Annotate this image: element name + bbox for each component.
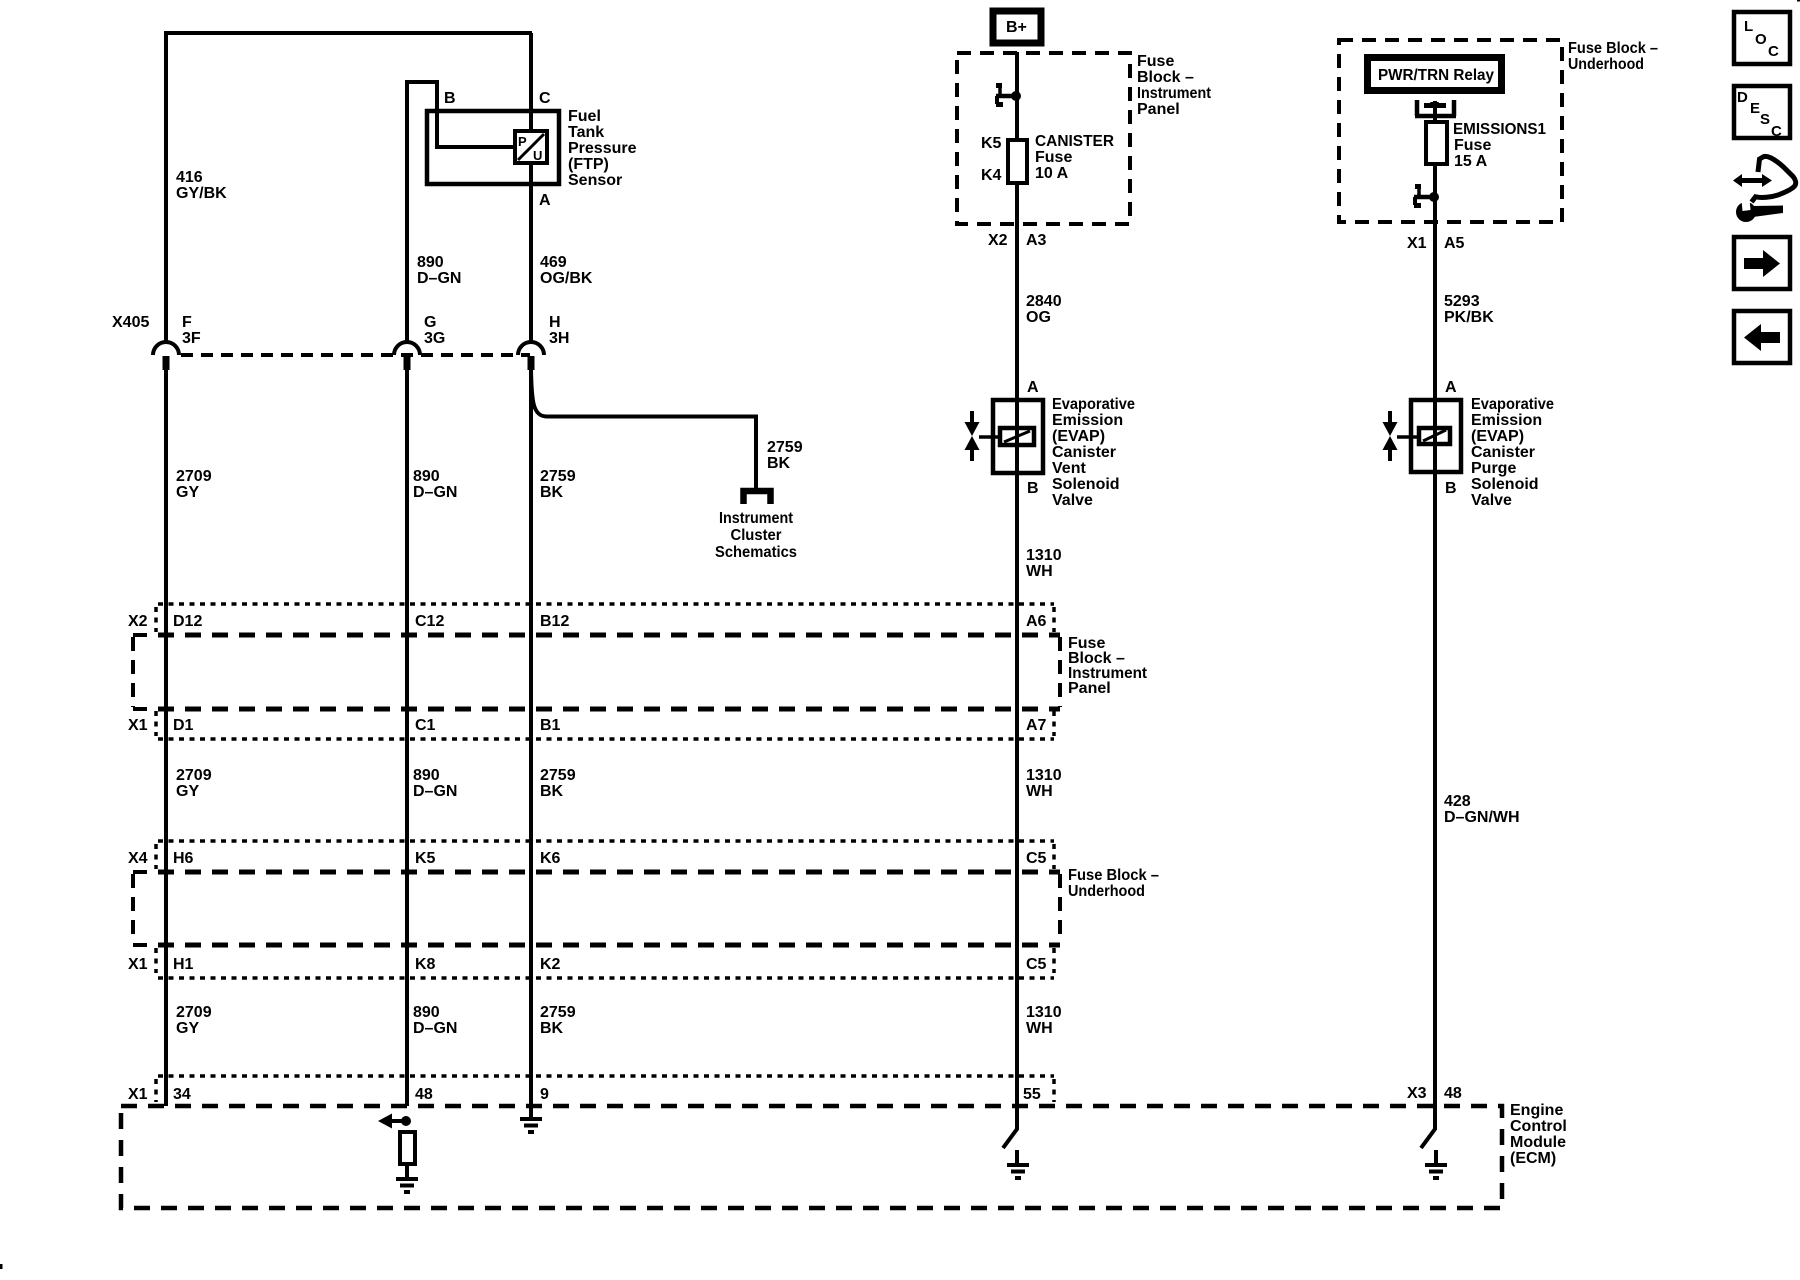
svg-text:A6: A6 <box>1026 613 1047 630</box>
svg-text:L: L <box>1744 18 1753 35</box>
wire 890 D-GN lower vertical <box>405 368 409 1106</box>
UH band row1 left tick <box>154 844 158 869</box>
svg-text:B: B <box>1027 480 1039 497</box>
svg-text:D1: D1 <box>173 717 194 734</box>
wire 416 GY/BK top horizontal <box>164 31 532 35</box>
svg-text:Block –: Block – <box>1137 69 1194 86</box>
fuse EMISSIONS1 element <box>1426 122 1447 164</box>
svg-text:X1: X1 <box>128 956 148 973</box>
svg-text:OG: OG <box>1026 309 1051 326</box>
off-page connector to instrument cluster <box>744 491 771 504</box>
svg-text:Solenoid: Solenoid <box>1052 476 1120 493</box>
svg-text:BK: BK <box>540 484 564 501</box>
wire through vent valve <box>1015 400 1019 473</box>
svg-text:2709: 2709 <box>176 1004 212 1021</box>
svg-text:Solenoid: Solenoid <box>1471 476 1539 493</box>
svg-text:WH: WH <box>1026 563 1053 580</box>
UH band row1 right tick <box>1052 844 1056 869</box>
IP band row1 dotted line <box>158 602 1054 606</box>
svg-text:Cluster: Cluster <box>731 527 782 544</box>
fuel tank pressure FTP sensor box <box>427 111 559 184</box>
wire pin 9 to ground <box>529 1106 533 1117</box>
svg-text:B: B <box>444 90 456 107</box>
svg-text:EMISSIONS1: EMISSIONS1 <box>1453 121 1546 138</box>
bus bar tap symbol right <box>1414 184 1439 208</box>
svg-text:OG/BK: OG/BK <box>540 270 593 287</box>
wire B+ to fuse <box>1015 52 1019 140</box>
svg-text:9: 9 <box>540 1086 549 1103</box>
svg-text:GY: GY <box>176 1020 199 1037</box>
vent valve symbol <box>965 411 1001 461</box>
connector X405 dashed line <box>181 353 530 357</box>
fuse block instrument panel dashed box <box>957 53 1130 224</box>
svg-text:Emission: Emission <box>1052 412 1123 429</box>
wire resistor to ground <box>405 1164 409 1178</box>
svg-text:Valve: Valve <box>1471 492 1512 509</box>
svg-text:H: H <box>549 314 561 331</box>
svg-text:15 A: 15 A <box>1454 153 1488 170</box>
svg-text:A3: A3 <box>1026 232 1047 249</box>
vent solenoid coil <box>1000 428 1034 445</box>
svg-text:D–GN: D–GN <box>417 270 461 287</box>
svg-text:PWR/TRN Relay: PWR/TRN Relay <box>1378 67 1494 84</box>
svg-text:890: 890 <box>413 767 440 784</box>
svg-text:34: 34 <box>173 1086 191 1103</box>
svg-text:GY: GY <box>176 783 199 800</box>
svg-text:428: 428 <box>1444 793 1471 810</box>
svg-text:D–GN: D–GN <box>413 783 457 800</box>
svg-text:D–GN: D–GN <box>413 484 457 501</box>
svg-text:Schematics: Schematics <box>715 544 797 561</box>
purge solenoid coil <box>1419 428 1450 444</box>
svg-text:469: 469 <box>540 254 567 271</box>
svg-text:(FTP): (FTP) <box>568 156 609 173</box>
svg-text:Instrument: Instrument <box>1137 85 1212 102</box>
speck top-right <box>1797 0 1800 2</box>
svg-text:Fuse: Fuse <box>1454 137 1491 154</box>
B+ battery feed symbol <box>993 11 1041 43</box>
svg-text:A5: A5 <box>1444 235 1465 252</box>
svg-text:BK: BK <box>540 1020 564 1037</box>
connector X405 arc F <box>153 342 179 355</box>
svg-text:(ECM): (ECM) <box>1510 1150 1556 1167</box>
svg-text:(EVAP): (EVAP) <box>1471 428 1524 445</box>
wire 1310 WH <box>1015 473 1019 1106</box>
speck bottom-left <box>0 1264 3 1269</box>
svg-text:S: S <box>1760 111 1770 128</box>
svg-text:X2: X2 <box>128 613 148 630</box>
DESC navigation box <box>1734 86 1790 140</box>
svg-text:D–GN: D–GN <box>413 1020 457 1037</box>
svg-text:C: C <box>1768 43 1779 60</box>
LOC navigation box <box>1734 12 1790 64</box>
service info icon <box>1733 156 1796 222</box>
svg-text:Fuse: Fuse <box>1035 149 1072 166</box>
svg-text:Canister: Canister <box>1052 444 1116 461</box>
fuse block underhood dashed box top <box>1339 40 1562 222</box>
svg-text:2709: 2709 <box>176 767 212 784</box>
svg-text:P: P <box>518 134 527 149</box>
svg-text:Canister: Canister <box>1471 444 1535 461</box>
PWR/TRN relay box <box>1368 58 1502 91</box>
wire sensor pin B jog <box>407 82 513 147</box>
svg-text:Instrument: Instrument <box>719 510 794 527</box>
wire 416 GY/BK left vertical <box>164 31 168 344</box>
back arrow box <box>1734 311 1790 363</box>
svg-text:BK: BK <box>767 455 791 472</box>
UH band row2 dotted line <box>158 976 1054 980</box>
UH band row2 left tick <box>154 948 158 973</box>
connector X405 arc G <box>394 342 420 355</box>
svg-text:K5: K5 <box>415 850 436 867</box>
ground at pin 9 <box>520 1119 542 1132</box>
ground stem at pin 55 <box>1015 1150 1019 1164</box>
EVAP canister purge solenoid valve box <box>1411 400 1461 472</box>
svg-text:C1: C1 <box>415 717 436 734</box>
svg-text:CANISTER: CANISTER <box>1035 133 1114 150</box>
svg-text:5293: 5293 <box>1444 293 1480 310</box>
fuse block IP dashed box mid <box>158 633 1060 638</box>
purge valve symbol <box>1383 411 1420 461</box>
relay output bracket <box>1415 100 1456 116</box>
svg-text:Emission: Emission <box>1471 412 1542 429</box>
svg-text:Vent: Vent <box>1052 460 1086 477</box>
svg-text:Evaporative: Evaporative <box>1471 396 1554 413</box>
svg-text:Control: Control <box>1510 1118 1567 1135</box>
svg-text:X405: X405 <box>112 314 149 331</box>
svg-text:B1: B1 <box>540 717 561 734</box>
IP band row1 right tick <box>1052 607 1056 632</box>
svg-text:G: G <box>424 314 436 331</box>
svg-text:C: C <box>539 90 551 107</box>
forward arrow box <box>1734 237 1790 289</box>
wire 2840 OG <box>1015 183 1019 400</box>
UH band row2 right tick <box>1052 948 1056 973</box>
svg-text:Fuse Block –: Fuse Block – <box>1068 867 1159 884</box>
svg-text:A: A <box>539 192 551 209</box>
svg-text:Module: Module <box>1510 1134 1566 1151</box>
svg-text:416: 416 <box>176 169 203 186</box>
ECM signal arrow at pin 48 <box>378 1114 411 1129</box>
svg-text:X3: X3 <box>1407 1085 1427 1102</box>
svg-text:K4: K4 <box>981 167 1002 184</box>
svg-text:X1: X1 <box>1407 235 1427 252</box>
svg-text:K8: K8 <box>415 956 436 973</box>
svg-text:A7: A7 <box>1026 717 1047 734</box>
svg-text:48: 48 <box>415 1086 433 1103</box>
svg-text:(EVAP): (EVAP) <box>1052 428 1105 445</box>
svg-text:2759: 2759 <box>540 1004 576 1021</box>
connector X405 pin F <box>163 356 170 370</box>
svg-text:2709: 2709 <box>176 468 212 485</box>
svg-text:3F: 3F <box>182 330 201 347</box>
svg-text:Purge: Purge <box>1471 460 1516 477</box>
EVAP canister vent solenoid valve box <box>993 400 1043 473</box>
svg-text:F: F <box>182 314 192 331</box>
wire through purge valve <box>1433 400 1437 472</box>
wire 890 D-GN left vertical <box>405 82 409 344</box>
ECM switch at pin 55 <box>1003 1106 1017 1148</box>
svg-text:890: 890 <box>417 254 444 271</box>
svg-text:Sensor: Sensor <box>568 172 622 189</box>
svg-text:1310: 1310 <box>1026 547 1062 564</box>
svg-text:Underhood: Underhood <box>1068 883 1145 900</box>
wire 2759 BK vertical <box>529 368 533 1106</box>
wire 2759 BK branch curve to instrument cluster <box>531 369 756 489</box>
connector X405 arc H <box>518 342 544 355</box>
svg-text:A: A <box>1445 379 1457 396</box>
svg-text:GY/BK: GY/BK <box>176 185 227 202</box>
svg-text:X2: X2 <box>988 232 1008 249</box>
IP band row2 right tick <box>1052 711 1056 736</box>
svg-text:2759: 2759 <box>540 468 576 485</box>
svg-text:Panel: Panel <box>1137 101 1180 118</box>
svg-text:D: D <box>1737 89 1748 106</box>
IP band row2 dotted line <box>158 737 1054 741</box>
svg-text:2840: 2840 <box>1026 293 1062 310</box>
bus bar tap symbol <box>996 83 1021 107</box>
svg-text:1310: 1310 <box>1026 767 1062 784</box>
svg-text:U: U <box>533 148 542 163</box>
ground at pin 55 <box>1007 1165 1029 1178</box>
svg-text:X1: X1 <box>128 717 148 734</box>
svg-text:E: E <box>1750 100 1760 117</box>
svg-text:BK: BK <box>540 783 564 800</box>
svg-text:A: A <box>1027 379 1039 396</box>
ECM pin row dotted line <box>158 1074 1054 1078</box>
svg-text:C5: C5 <box>1026 956 1047 973</box>
UH band row1 dotted line <box>158 839 1054 843</box>
svg-text:C5: C5 <box>1026 850 1047 867</box>
fuse CANISTER 10A element <box>1008 140 1027 183</box>
ECM resistor at pin 48 <box>400 1132 415 1164</box>
svg-text:Fuel: Fuel <box>568 108 601 125</box>
ground at pin 48 <box>396 1179 418 1192</box>
svg-text:D–GN/WH: D–GN/WH <box>1444 809 1520 826</box>
svg-text:B+: B+ <box>1006 19 1027 36</box>
svg-text:X4: X4 <box>128 850 148 867</box>
ECM pin row left tick <box>154 1079 158 1102</box>
svg-text:Fuse: Fuse <box>1137 53 1174 70</box>
svg-text:Underhood: Underhood <box>1568 56 1644 73</box>
svg-text:B12: B12 <box>540 613 569 630</box>
svg-text:WH: WH <box>1026 1020 1053 1037</box>
connector X405 pin H <box>528 356 535 370</box>
wire 2709 GY vertical <box>164 368 168 1106</box>
svg-text:890: 890 <box>413 468 440 485</box>
svg-text:10 A: 10 A <box>1035 165 1069 182</box>
svg-text:C: C <box>1771 123 1782 140</box>
wire fuse to X1 A5 <box>1433 164 1437 400</box>
svg-text:48: 48 <box>1444 1085 1462 1102</box>
wire relay to fuse <box>1433 101 1437 122</box>
IP band row1 left tick <box>154 607 158 632</box>
svg-text:PK/BK: PK/BK <box>1444 309 1494 326</box>
svg-text:Engine: Engine <box>1510 1102 1563 1119</box>
ECM pin row right tick <box>1052 1079 1056 1102</box>
svg-text:2759: 2759 <box>540 767 576 784</box>
svg-text:X1: X1 <box>128 1086 148 1103</box>
svg-text:K2: K2 <box>540 956 561 973</box>
svg-text:O: O <box>1755 31 1767 48</box>
svg-text:Panel: Panel <box>1068 680 1111 697</box>
svg-text:Valve: Valve <box>1052 492 1093 509</box>
engine control module ECM dashed box <box>121 1106 1502 1208</box>
svg-text:2759: 2759 <box>767 439 803 456</box>
svg-text:1310: 1310 <box>1026 1004 1062 1021</box>
svg-text:WH: WH <box>1026 783 1053 800</box>
ground at pin X3 48 <box>1425 1165 1447 1178</box>
fuse block underhood dashed box <box>158 870 1060 875</box>
svg-text:H6: H6 <box>173 850 194 867</box>
svg-text:Fuse Block –: Fuse Block – <box>1568 40 1658 57</box>
svg-text:D12: D12 <box>173 613 202 630</box>
sensor P/U symbol <box>515 131 547 163</box>
svg-text:890: 890 <box>413 1004 440 1021</box>
wire 428 D-GN/WH <box>1433 472 1437 1106</box>
ground stem at pin X3 48 <box>1434 1150 1438 1164</box>
connector X405 pin G <box>404 356 411 370</box>
svg-text:Pressure: Pressure <box>568 140 637 157</box>
svg-text:C12: C12 <box>415 613 444 630</box>
svg-text:Tank: Tank <box>568 124 604 141</box>
svg-text:K5: K5 <box>981 135 1002 152</box>
svg-text:Evaporative: Evaporative <box>1052 396 1135 413</box>
svg-text:B: B <box>1445 480 1457 497</box>
wire 469 OG/BK sensor pin C vertical <box>529 33 533 344</box>
svg-text:55: 55 <box>1023 1086 1041 1103</box>
svg-text:K6: K6 <box>540 850 561 867</box>
ECM switch at pin X3 48 <box>1421 1106 1435 1148</box>
svg-text:3G: 3G <box>424 330 445 347</box>
svg-text:H1: H1 <box>173 956 194 973</box>
svg-text:GY: GY <box>176 484 199 501</box>
IP band row2 left tick <box>154 711 158 736</box>
svg-text:3H: 3H <box>549 330 569 347</box>
